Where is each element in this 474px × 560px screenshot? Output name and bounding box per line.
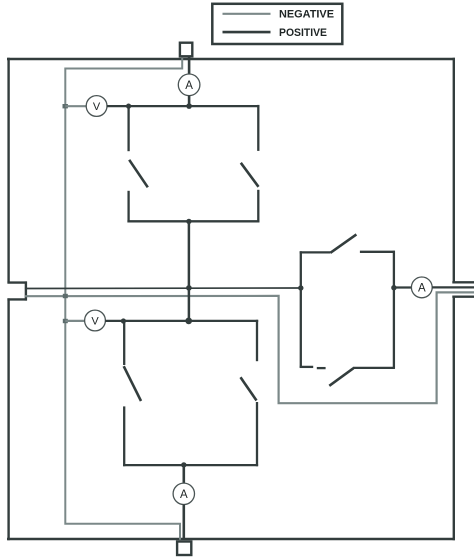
switch S6 blade <box>329 368 353 386</box>
svg-text:A: A <box>180 489 188 501</box>
right bridge: wire right vertical <box>393 251 395 369</box>
ammeter A3 <box>173 483 194 504</box>
node A1 junction <box>186 103 192 109</box>
left connector socket <box>7 281 27 300</box>
right connector stubs <box>452 282 474 296</box>
wire bottom edge of lower bridge box2 <box>123 464 258 466</box>
node box2 top-left <box>121 318 126 323</box>
node bus junction <box>186 285 192 291</box>
terminal bottom <box>177 542 191 556</box>
switch S6 left contact wire <box>300 366 314 368</box>
switch S2 blade <box>241 163 259 187</box>
wire gray lead to V2 <box>65 320 85 322</box>
wire box2 to A3 <box>183 465 186 483</box>
wire gray lead to V1 <box>65 105 86 107</box>
wire top edge of lower bridge (V2 line) <box>105 320 258 322</box>
wire A2 to right edge positive <box>432 286 474 288</box>
switch S1 top contact wire <box>127 105 129 151</box>
legend box <box>212 4 342 44</box>
svg-text:POSITIVE: POSITIVE <box>279 27 327 39</box>
wire box3 to A2 <box>394 286 412 288</box>
ammeter A2 <box>411 277 432 298</box>
voltmeter V2 <box>85 310 106 331</box>
svg-text:A: A <box>418 283 426 295</box>
wire positive bus left section <box>25 287 301 290</box>
wire top edge of left bridge (V1 line) <box>107 105 260 107</box>
switch S5 left contact wire <box>300 251 331 253</box>
wire negative bus loop around right bridge <box>25 292 474 403</box>
node box2 bottom center <box>181 462 186 467</box>
svg-text:NEGATIVE: NEGATIVE <box>279 9 334 21</box>
legend positive sample line <box>223 31 271 34</box>
node V2 line junction <box>185 318 192 325</box>
wire center vertical positive <box>188 221 191 321</box>
switch S2 bottom contact wire <box>257 190 259 223</box>
node gray junction at V1 left <box>63 104 68 108</box>
switch S6 right contact wire <box>353 367 395 369</box>
node gray junction at bus <box>63 294 68 298</box>
terminal top <box>180 43 192 57</box>
switch S5 right contact wire <box>360 251 395 253</box>
switch S4 blade <box>241 377 257 400</box>
switch S6 left contact dash <box>317 367 326 369</box>
wire positive terminal to A1 <box>188 57 191 75</box>
voltmeter V1 <box>86 96 107 117</box>
switch S4 top contact wire <box>256 320 258 361</box>
wire negative from top terminal down left side to bottom terminal <box>65 58 182 540</box>
wire A1 to node <box>188 96 191 107</box>
switch S4 bottom contact wire <box>256 402 258 466</box>
switch S3 bottom contact wire <box>123 406 125 466</box>
wire bottom edge of left bridge box1 <box>127 220 259 222</box>
switch S5 blade <box>330 234 356 252</box>
svg-text:V: V <box>93 101 101 113</box>
wire A3 to bottom terminal <box>183 505 186 540</box>
switch S2 top contact wire <box>257 105 259 151</box>
ammeter A1 <box>178 74 200 96</box>
svg-text:V: V <box>91 316 99 328</box>
switch S1 blade <box>129 160 148 188</box>
node gray junction at V2 left <box>63 319 68 323</box>
right bridge: wire left vertical <box>300 251 302 367</box>
switch S3 top contact wire <box>123 320 125 365</box>
node box1 bottom center <box>186 219 191 224</box>
switch S1 bottom contact wire <box>127 191 129 223</box>
switch S3 blade <box>124 366 141 401</box>
node box3 right bus junction <box>391 285 396 290</box>
legend negative sample line <box>223 13 271 15</box>
node box1 top-left <box>126 104 131 109</box>
node box3 left bus junction <box>298 285 303 290</box>
svg-text:A: A <box>185 80 193 92</box>
